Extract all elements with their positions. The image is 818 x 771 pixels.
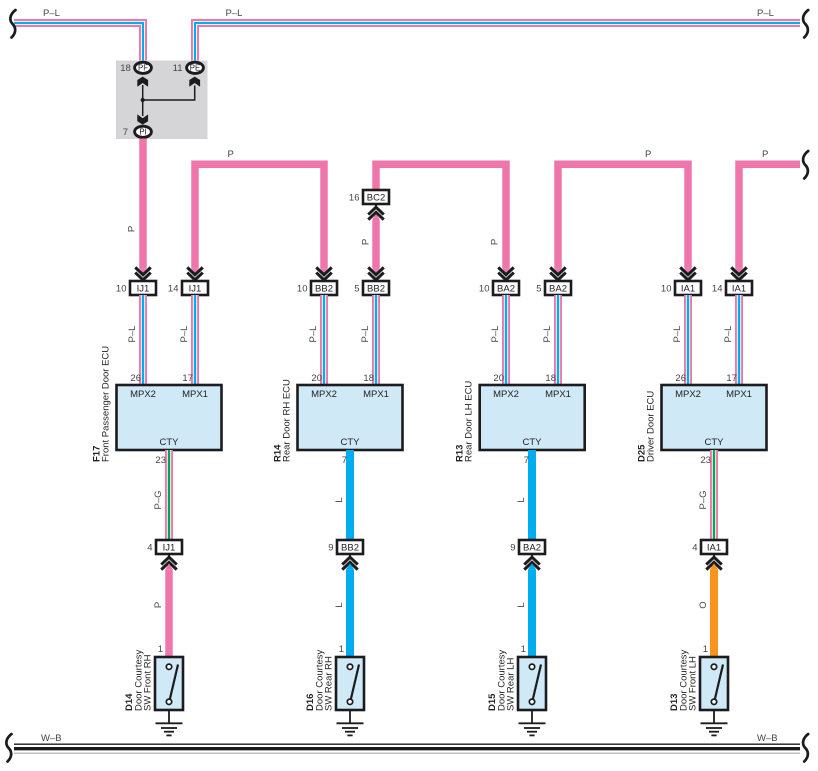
ground symbol below D15 <box>519 710 546 735</box>
svg-text:MPX1: MPX1 <box>545 389 571 400</box>
wire: L from connector down to switch pin 1 <box>528 569 536 657</box>
svg-text:SW Front RH: SW Front RH <box>143 654 154 711</box>
chevron into connector at x=688 <box>680 267 696 281</box>
label D15 <box>487 650 517 711</box>
svg-text:SW Rear LH: SW Rear LH <box>506 658 517 711</box>
chevron below 9 BB2 <box>342 554 358 570</box>
connector 10 BA2 <box>479 281 519 295</box>
wire: P-L from connector to ECU pin 26 <box>139 295 147 385</box>
svg-text:10: 10 <box>116 284 127 295</box>
svg-text:17: 17 <box>726 373 737 384</box>
wire: L from ECU CTY pin 7 <box>346 450 354 540</box>
wire: L from ECU CTY pin 7 <box>528 450 536 540</box>
svg-text:BC2: BC2 <box>367 193 385 204</box>
wire: P-L from connector to ECU pin 20 <box>320 295 328 385</box>
svg-text:P–L: P–L <box>127 326 138 343</box>
wire: P-L from connector to ECU pin 20 <box>502 295 510 385</box>
chevron into connector at x=324 <box>316 267 332 281</box>
svg-text:P–L: P–L <box>490 326 501 343</box>
off-page continuation mark (bottom right) <box>803 734 808 762</box>
svg-text:BB2: BB2 <box>341 543 359 554</box>
svg-text:P: P <box>762 149 768 160</box>
ground symbol below D13 <box>701 710 728 735</box>
label D25 Driver Door ECU <box>637 391 657 462</box>
terminal 18 PF <box>120 62 151 74</box>
ECU R14 Rear Door RH ECU <box>298 385 403 450</box>
switch D15 Door Courtesy SW Rear LH <box>518 657 546 710</box>
svg-text:1: 1 <box>703 644 708 655</box>
svg-text:10: 10 <box>297 284 308 295</box>
svg-text:4: 4 <box>147 543 152 554</box>
off-page continuation mark (P run right) <box>803 151 808 179</box>
svg-text:Rear Door RH ECU: Rear Door RH ECU <box>282 379 293 462</box>
arrow into PI <box>137 114 148 124</box>
chevron into connector at x=143 <box>135 267 151 281</box>
wire: O from connector down to switch pin 1 <box>710 569 718 657</box>
svg-text:CTY: CTY <box>160 437 180 448</box>
svg-text:7: 7 <box>524 455 529 466</box>
ECU R13 Rear Door LH ECU <box>480 385 585 450</box>
svg-text:10: 10 <box>479 284 490 295</box>
off-page continuation mark (bottom left) <box>6 734 11 762</box>
wire: P from 16-BC2 chevron down to 5-BB2 <box>372 219 380 268</box>
svg-text:20: 20 <box>311 373 322 384</box>
svg-text:14: 14 <box>712 284 723 295</box>
svg-text:P–G: P–G <box>153 490 164 509</box>
junction node dot <box>141 98 145 102</box>
switch D14 Door Courtesy SW Front RH <box>155 657 183 710</box>
svg-text:1: 1 <box>339 644 344 655</box>
svg-text:23: 23 <box>155 455 166 466</box>
svg-text:MPX1: MPX1 <box>182 389 208 400</box>
arrow into PF <box>137 77 148 87</box>
svg-text:P–G: P–G <box>698 490 709 509</box>
svg-text:P: P <box>490 239 501 245</box>
chevron into connector at x=558 <box>550 267 566 281</box>
svg-text:P–L: P–L <box>308 326 319 343</box>
wire: W-B ground bus <box>14 744 800 753</box>
label D14 <box>124 650 154 711</box>
svg-text:10: 10 <box>661 284 672 295</box>
label R13 Rear Door LH ECU <box>455 381 475 462</box>
svg-text:18: 18 <box>363 373 374 384</box>
ECU D25 Driver Door ECU <box>662 385 767 450</box>
svg-text:26: 26 <box>130 373 141 384</box>
wire: P run from 14-IJ1 up across to 10-BB2 <box>195 164 324 268</box>
svg-text:1: 1 <box>158 644 163 655</box>
svg-text:18: 18 <box>120 63 131 74</box>
label F17 Front Passenger Door ECU <box>92 346 112 462</box>
svg-text:SW Front LH: SW Front LH <box>688 656 699 711</box>
svg-text:P: P <box>228 149 234 160</box>
wire: P–G from ECU CTY pin 23 <box>165 450 173 540</box>
svg-text:23: 23 <box>700 455 711 466</box>
svg-text:L: L <box>334 602 345 607</box>
svg-text:P: P <box>361 239 372 245</box>
internal J/B wire: node to PF, PE, PI <box>143 85 195 116</box>
svg-text:CTY: CTY <box>705 437 725 448</box>
chevron into connector at x=506 <box>498 267 514 281</box>
connector 10 IJ1 <box>116 281 156 295</box>
svg-text:MPX2: MPX2 <box>130 389 156 400</box>
terminal 11 PE <box>173 62 204 74</box>
chevron into connector at x=195 <box>187 267 203 281</box>
chevron into connector at x=376 <box>368 267 384 281</box>
connector 10 BB2 <box>297 281 337 295</box>
switch D16 Door Courtesy SW Rear RH <box>336 657 364 710</box>
svg-text:BB2: BB2 <box>315 284 333 295</box>
connector 9 BB2 <box>328 540 363 554</box>
connector 14 IA1 <box>712 281 752 295</box>
svg-text:P: P <box>645 149 651 160</box>
svg-text:CTY: CTY <box>341 437 361 448</box>
wire: P-L bus from J/B terminal PE to off-page right <box>195 23 800 62</box>
arrow into PE <box>189 77 200 87</box>
svg-text:MPX2: MPX2 <box>675 389 701 400</box>
svg-text:14: 14 <box>168 284 179 295</box>
ground symbol below D16 <box>337 710 364 735</box>
wire: P-L from connector to ECU pin 26 <box>684 295 692 385</box>
connector 10 IA1 <box>661 281 701 295</box>
svg-text:IA1: IA1 <box>681 284 695 295</box>
ECU F17 Front Passenger Door ECU <box>117 385 222 450</box>
svg-text:5: 5 <box>536 284 541 295</box>
svg-text:P–L: P–L <box>43 8 60 19</box>
svg-text:20: 20 <box>493 373 504 384</box>
connector 4 IA1 <box>692 540 727 554</box>
svg-text:P–L: P–L <box>542 326 553 343</box>
svg-text:CTY: CTY <box>523 437 543 448</box>
chevron below 4 IA1 <box>706 554 722 570</box>
wire: P from connector down to switch pin 1 <box>165 569 173 657</box>
wire: P run from 14-IA1 up to off-page right <box>739 164 800 268</box>
svg-text:5: 5 <box>354 284 359 295</box>
svg-text:O: O <box>698 601 709 608</box>
svg-text:IA1: IA1 <box>732 284 746 295</box>
wire: P run from 5-BA2 up across to 10-IA1 <box>558 164 688 268</box>
svg-text:18: 18 <box>545 373 556 384</box>
svg-text:9: 9 <box>510 543 515 554</box>
terminal 7 PI <box>123 126 152 138</box>
junction block J/B (shaded) <box>116 61 208 140</box>
svg-text:BA2: BA2 <box>523 543 541 554</box>
svg-text:26: 26 <box>675 373 686 384</box>
switch D13 Door Courtesy SW Front LH <box>700 657 728 710</box>
svg-text:11: 11 <box>173 63 183 74</box>
chevron into connector at x=739 <box>731 267 747 281</box>
connector 5 BA2 <box>536 281 571 295</box>
connector 14 IJ1 <box>168 281 208 295</box>
wire: P from connector 16-BC2 up across down to 10-BA2 <box>376 164 506 268</box>
ground symbol below D14 <box>156 710 183 735</box>
connector 16 BC2 <box>349 190 389 204</box>
svg-text:7: 7 <box>123 127 128 138</box>
svg-text:P–L: P–L <box>672 326 683 343</box>
svg-text:P–L: P–L <box>226 8 243 19</box>
svg-text:L: L <box>516 497 527 502</box>
chevron below 4 IJ1 <box>161 554 177 570</box>
chevron below 9 BA2 <box>524 554 540 570</box>
wire: P-L from connector to ECU pin 17 <box>191 295 199 385</box>
svg-text:IJ1: IJ1 <box>163 543 176 554</box>
svg-text:9: 9 <box>328 543 333 554</box>
svg-text:IJ1: IJ1 <box>189 284 202 295</box>
connector 9 BA2 <box>510 540 545 554</box>
svg-text:PE: PE <box>190 64 200 73</box>
svg-text:P–L: P–L <box>360 326 371 343</box>
chevron below BC2 <box>368 204 384 220</box>
svg-text:IA1: IA1 <box>707 543 721 554</box>
wire: P-L from connector to ECU pin 17 <box>735 295 743 385</box>
svg-text:PF: PF <box>138 64 148 73</box>
connector 5 BB2 <box>354 281 389 295</box>
svg-text:P–L: P–L <box>179 326 190 343</box>
svg-text:P–L: P–L <box>757 8 774 19</box>
svg-text:P: P <box>126 226 137 232</box>
wire: P–G from ECU CTY pin 23 <box>710 450 718 540</box>
svg-text:W–B: W–B <box>41 733 62 744</box>
svg-text:MPX2: MPX2 <box>493 389 519 400</box>
svg-text:IJ1: IJ1 <box>137 284 150 295</box>
svg-text:L: L <box>334 497 345 502</box>
svg-text:P–L: P–L <box>723 326 734 343</box>
svg-text:16: 16 <box>349 193 360 204</box>
svg-text:MPX1: MPX1 <box>726 389 752 400</box>
wire: P-L bus (off-page left) into J/B terminal PF <box>14 23 143 62</box>
svg-text:BB2: BB2 <box>367 284 385 295</box>
svg-text:L: L <box>516 602 527 607</box>
svg-text:Rear Door LH ECU: Rear Door LH ECU <box>464 381 475 462</box>
svg-text:BA2: BA2 <box>549 284 567 295</box>
svg-text:P: P <box>153 602 164 608</box>
wire: L from connector down to switch pin 1 <box>346 569 354 657</box>
svg-text:1: 1 <box>521 644 526 655</box>
off-page continuation mark (top right) <box>803 10 808 38</box>
svg-text:PI: PI <box>139 128 146 137</box>
wire: P-L from connector to ECU pin 18 <box>554 295 562 385</box>
svg-text:17: 17 <box>182 373 193 384</box>
connector 4 IJ1 <box>147 540 182 554</box>
wire: P-L from connector to ECU pin 18 <box>372 295 380 385</box>
wire: P from J/B PI down to connector 10-IJ1 <box>139 139 147 269</box>
svg-text:W–B: W–B <box>757 733 778 744</box>
label D13 <box>669 650 699 711</box>
off-page continuation mark (top left) <box>10 10 15 38</box>
svg-text:Driver Door ECU: Driver Door ECU <box>646 391 657 462</box>
svg-text:BA2: BA2 <box>497 284 515 295</box>
svg-text:SW Rear RH: SW Rear RH <box>324 656 335 711</box>
label R14 Rear Door RH ECU <box>273 379 293 462</box>
svg-text:7: 7 <box>342 455 347 466</box>
svg-text:MPX2: MPX2 <box>311 389 337 400</box>
label D16 <box>305 650 335 711</box>
svg-text:MPX1: MPX1 <box>363 389 389 400</box>
svg-text:Front Passenger Door ECU: Front Passenger Door ECU <box>101 346 112 462</box>
svg-text:4: 4 <box>692 543 697 554</box>
